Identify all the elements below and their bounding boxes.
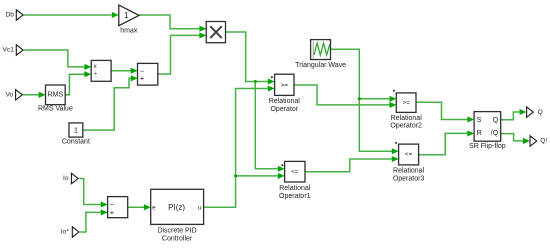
svg-text:Discrete PID: Discrete PID	[157, 227, 196, 234]
svg-text:Controller: Controller	[162, 235, 193, 242]
svg-text:Relational: Relational	[279, 185, 311, 192]
svg-text:<=: <=	[291, 169, 299, 176]
svg-text:<=: <=	[405, 151, 413, 158]
svg-text:S: S	[477, 115, 482, 124]
svg-text:Vo: Vo	[5, 92, 13, 99]
svg-text:Constant: Constant	[62, 139, 90, 146]
svg-text:Operator2: Operator2	[390, 123, 422, 130]
svg-text:R: R	[477, 128, 482, 137]
svg-text:/Q: /Q	[491, 128, 499, 137]
svg-text:Vc1: Vc1	[3, 47, 15, 54]
svg-text:Relational: Relational	[391, 115, 423, 122]
svg-text:1: 1	[124, 11, 129, 20]
svg-text:+: +	[140, 74, 145, 83]
svg-text:÷: ÷	[94, 71, 98, 78]
svg-text:Q!: Q!	[540, 138, 547, 145]
svg-text:>=: >=	[403, 99, 411, 106]
svg-text:>=: >=	[281, 82, 289, 89]
svg-text:Operator: Operator	[270, 106, 298, 113]
svg-text:Io*: Io*	[61, 229, 69, 236]
svg-text:Relational: Relational	[269, 98, 301, 105]
svg-text:RMS Value: RMS Value	[38, 106, 73, 113]
svg-text:Q: Q	[493, 115, 499, 124]
svg-text:+: +	[110, 208, 115, 217]
svg-text:Triangular Wave: Triangular Wave	[295, 62, 346, 69]
svg-text:Db: Db	[5, 12, 14, 19]
svg-text:Io: Io	[63, 175, 69, 182]
svg-text:hmax: hmax	[120, 27, 138, 34]
svg-text:1: 1	[74, 126, 78, 135]
svg-text:Relational: Relational	[393, 167, 425, 174]
svg-text:u: u	[198, 204, 202, 211]
svg-text:PI(z): PI(z)	[168, 203, 185, 212]
svg-text:x: x	[94, 64, 97, 70]
svg-text:SR Flip-flop: SR Flip-flop	[469, 143, 506, 150]
svg-text:e: e	[152, 204, 156, 211]
svg-text:Operator1: Operator1	[279, 193, 311, 200]
svg-text:RMS: RMS	[48, 92, 64, 99]
svg-text:Operator3: Operator3	[393, 175, 425, 182]
svg-text:Q: Q	[538, 109, 543, 116]
